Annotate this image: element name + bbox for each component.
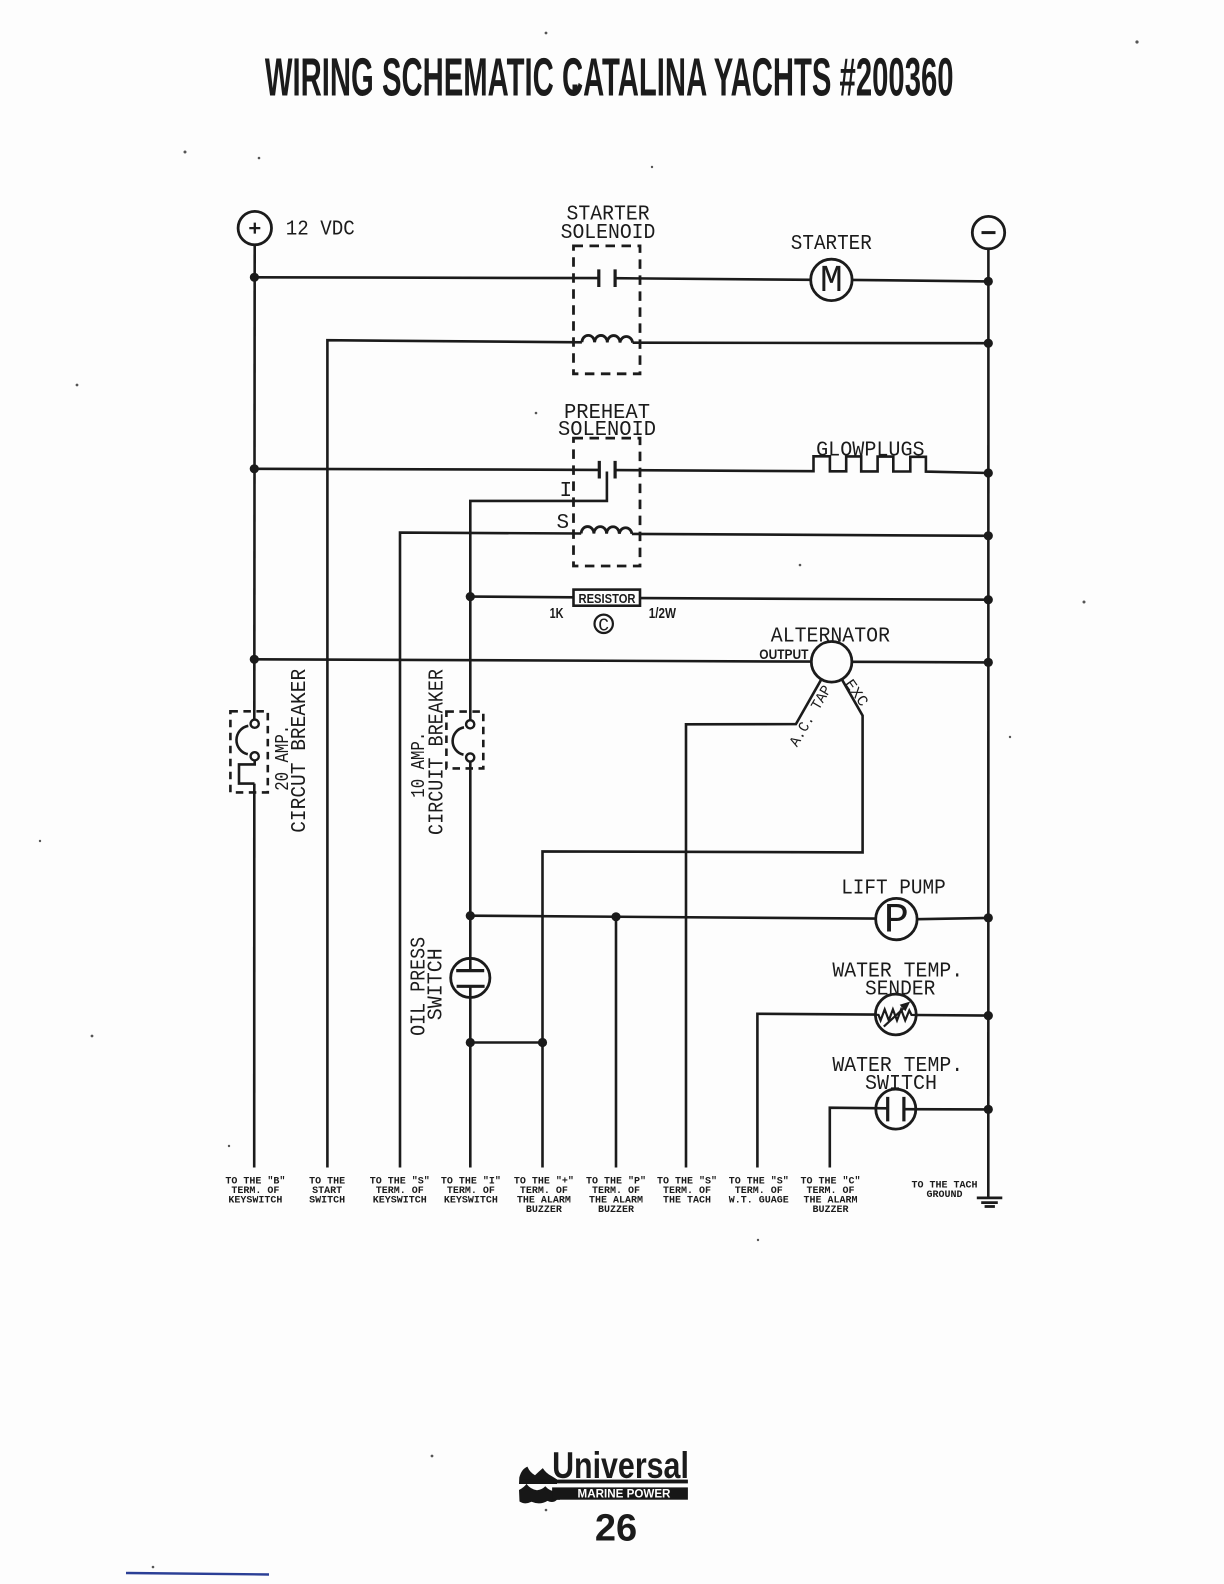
svg-text:ALTERNATOR: ALTERNATOR	[771, 625, 891, 648]
CB1 switch arc	[236, 726, 248, 754]
svg-text:S: S	[557, 512, 570, 535]
svg-text:STARTER: STARTER	[791, 233, 872, 256]
label to the B term of keyswitch	[225, 1175, 285, 1206]
20 amp circuit breaker CB1 dashed box	[230, 711, 267, 792]
title stray dot	[573, 85, 578, 91]
node right bus junctions	[984, 277, 993, 1114]
svg-text:Universal: Universal	[552, 1445, 689, 1486]
label to the start switch	[309, 1176, 345, 1206]
wire switch to right bus	[904, 1108, 988, 1111]
wire starter motor to right bus	[852, 280, 988, 282]
svg-text:CIRCUIT BREAKER: CIRCUIT BREAKER	[426, 669, 449, 835]
wire A.C. TAP to tach riser	[686, 680, 821, 1167]
wire contact to glowplugs and right bus	[615, 456, 988, 473]
node lift pump feed junction left	[466, 911, 475, 920]
svg-text:BUZZER: BUZZER	[598, 1205, 634, 1216]
water temp switch S2	[876, 1089, 916, 1129]
starter solenoid U1 dashed box	[574, 246, 641, 374]
wire keyswitch I riser lower / oil press feed	[469, 762, 472, 1168]
svg-text:1K: 1K	[550, 605, 564, 622]
logo waves	[519, 1467, 557, 1484]
wire oil press to alarm plus riser	[470, 1041, 542, 1044]
label C in circle	[595, 615, 613, 637]
CB2 switch arc	[453, 727, 464, 754]
svg-text:P: P	[884, 896, 909, 944]
svg-text:MARINE POWER: MARINE POWER	[578, 1487, 671, 1501]
CB1 top contact circle	[251, 720, 259, 728]
node alarm P junction	[611, 912, 620, 921]
svg-text:WIRING SCHEMATIC CATALINA YACH: WIRING SCHEMATIC CATALINA YACHTS #200360	[265, 48, 954, 108]
wire lift pump to right bus	[917, 918, 988, 919]
wire water temp sender feed	[757, 1014, 875, 1168]
blue pen mark	[126, 1573, 269, 1575]
svg-text:SENDER: SENDER	[865, 979, 936, 1002]
svg-text:SWITCH: SWITCH	[309, 1196, 345, 1207]
wire sender to right bus	[916, 1014, 988, 1017]
terminal minus	[972, 216, 1004, 248]
node oil press lower junction	[466, 1038, 475, 1047]
svg-text:SWITCH: SWITCH	[425, 948, 448, 1020]
label to the C term of the alarm buzzer	[800, 1175, 860, 1216]
wire alternator output right	[852, 660, 988, 663]
svg-text:GLOWPLUGS: GLOWPLUGS	[816, 439, 925, 462]
node left bus junction 1	[250, 273, 259, 282]
wire top feed to starter solenoid contact	[254, 276, 598, 279]
wire keyswitch S riser to preheat coil	[400, 533, 581, 1168]
alternator G1	[811, 642, 852, 683]
svg-text:I: I	[560, 480, 573, 503]
wire water temp switch feed	[830, 1108, 888, 1168]
svg-text:SOLENOID: SOLENOID	[561, 222, 656, 245]
wire contact to starter motor	[615, 278, 811, 280]
label to the S term of the tach	[657, 1175, 717, 1206]
svg-text:W.T. GUAGE: W.T. GUAGE	[729, 1196, 789, 1207]
wire alternator output left	[254, 659, 811, 661]
svg-text:OUTPUT: OUTPUT	[759, 647, 809, 662]
CB2 top contact circle	[466, 720, 474, 728]
label to the tach ground	[911, 1181, 977, 1202]
wire start-switch riser to starter solenoid coil	[327, 340, 582, 1167]
wire lift pump feed	[470, 916, 875, 919]
node alarm plus junction	[538, 1038, 547, 1047]
wire left bus lower	[253, 784, 256, 1168]
resistor R1 box	[574, 590, 641, 606]
svg-text:BUZZER: BUZZER	[526, 1205, 562, 1216]
starter motor M1	[811, 259, 852, 303]
label to the S term of WT guage	[729, 1175, 789, 1206]
label PREHEAT SOLENOID	[558, 402, 656, 442]
label WATER TEMP. SENDER	[832, 961, 963, 1002]
wire right bus	[987, 249, 990, 1198]
10 amp circuit breaker CB2 dashed box	[446, 712, 483, 769]
svg-text:RESISTOR: RESISTOR	[579, 591, 637, 606]
oil pressure switch S1	[451, 958, 490, 997]
wire preheat coil to right bus	[632, 534, 988, 536]
wire alarm P riser	[615, 917, 618, 1168]
terminal +12VDC	[238, 211, 355, 244]
svg-text:26: 26	[595, 1508, 637, 1550]
svg-text:C: C	[598, 616, 609, 636]
node left bus junction 3	[250, 655, 259, 664]
svg-text:SWITCH: SWITCH	[865, 1073, 937, 1096]
svg-text:KEYSWITCH: KEYSWITCH	[444, 1196, 498, 1207]
preheat solenoid coil	[581, 527, 632, 534]
starter solenoid coil	[582, 335, 633, 342]
wire left bus upper	[253, 245, 256, 720]
svg-text:THE TACH: THE TACH	[663, 1196, 711, 1207]
preheat solenoid contact bars	[599, 461, 615, 479]
label WATER TEMP. SWITCH	[832, 1055, 963, 1096]
label to the I term of keyswitch	[441, 1175, 501, 1206]
node left bus junction 2	[250, 464, 259, 473]
CB1 bottom contact circle	[251, 752, 259, 760]
node resistor junction	[466, 592, 475, 601]
svg-text:CIRCUT BREAKER: CIRCUT BREAKER	[289, 668, 312, 832]
wire I terminal riser	[470, 472, 607, 721]
CB2 bottom contact circle	[466, 753, 474, 761]
wire preheat feed	[254, 469, 599, 470]
bottom terminal labels	[225, 1175, 977, 1216]
logo bar MARINE POWER	[552, 1487, 688, 1499]
wire coil to right bus	[633, 341, 989, 344]
svg-text:LIFT PUMP: LIFT PUMP	[841, 877, 946, 900]
svg-text:BUZZER: BUZZER	[812, 1205, 848, 1216]
svg-text:12 VDC: 12 VDC	[286, 218, 355, 241]
logo rule	[520, 1480, 688, 1484]
lift pump P1	[876, 896, 917, 944]
label to the P term of the alarm buzzer	[586, 1175, 646, 1216]
wire resistor to right bus	[640, 598, 988, 600]
svg-text:1/2W: 1/2W	[649, 605, 677, 622]
svg-text:GROUND: GROUND	[926, 1190, 962, 1201]
wire EXC to alarm riser	[543, 680, 863, 1167]
universal marine power logo	[519, 1445, 689, 1503]
svg-text:KEYSWITCH: KEYSWITCH	[373, 1196, 427, 1207]
label to the S term of keyswitch	[370, 1175, 430, 1206]
ground (tach ground)	[977, 1198, 1003, 1207]
svg-text:M: M	[820, 260, 843, 303]
CB1 thermal element step	[239, 760, 255, 783]
label to the + term of the alarm buzzer	[514, 1175, 574, 1216]
water temp sender RT1	[875, 994, 916, 1035]
label STARTER SOLENOID	[561, 203, 656, 245]
preheat solenoid U2 dashed box	[574, 438, 641, 566]
wire junction to resistor	[470, 595, 573, 598]
svg-text:KEYSWITCH: KEYSWITCH	[228, 1196, 282, 1207]
starter solenoid contact bars	[599, 269, 615, 287]
